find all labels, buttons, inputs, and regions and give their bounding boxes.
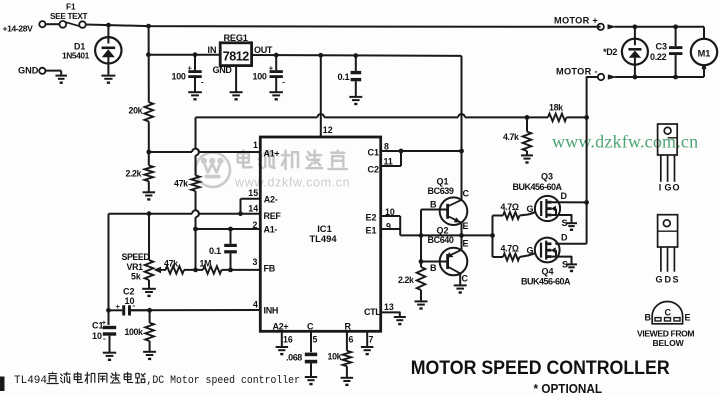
svg-text:4: 4	[253, 300, 258, 310]
svg-text:TL494: TL494	[309, 233, 337, 244]
junction 18k feedback	[584, 115, 589, 120]
resistor 2.2k base	[398, 262, 425, 302]
resistor 20k	[129, 102, 154, 121]
svg-text:O: O	[673, 183, 680, 193]
wire feedback line	[196, 114, 549, 117]
regulator REG1 7812	[208, 33, 273, 75]
Q4 source ground	[562, 260, 568, 270]
svg-text:E: E	[685, 313, 691, 323]
terminal MOTOR -	[556, 66, 617, 80]
ground at GND terminal	[56, 76, 68, 84]
junction at pin12 branch	[318, 53, 323, 58]
pin 7 ground	[367, 331, 373, 346]
svg-text:47k: 47k	[174, 179, 188, 189]
svg-text:BUK456-60A: BUK456-60A	[521, 277, 571, 287]
ground under 2.2k base	[415, 301, 428, 309]
capacitor C1 10	[92, 318, 116, 352]
wire REG1 GND pin	[235, 66, 237, 92]
wire from +V down to 12V rail and 20k	[148, 26, 150, 102]
svg-text:M1: M1	[698, 48, 711, 58]
resistor 18k	[548, 103, 567, 122]
svg-text:0.1: 0.1	[209, 246, 221, 256]
svg-text:*D2: *D2	[603, 47, 617, 57]
junction Q2 base	[419, 259, 424, 264]
pin 6 R timing res	[345, 322, 354, 351]
junction REF to bracket	[238, 211, 243, 216]
junction at 20k branch	[146, 24, 151, 29]
svg-text:3: 3	[253, 257, 258, 267]
svg-text:BC639: BC639	[428, 186, 454, 196]
svg-text:0.1: 0.1	[338, 72, 350, 82]
svg-text:1: 1	[253, 140, 258, 150]
ground under REG1	[230, 92, 243, 100]
wire VR1 drop	[148, 214, 150, 260]
junction splitter	[490, 233, 495, 238]
svg-text:D: D	[561, 233, 568, 243]
wire REF to left rail	[108, 214, 110, 311]
junction 0.1 cap bottom	[228, 268, 233, 273]
svg-text:12: 12	[323, 125, 333, 135]
svg-text:MOTOR -: MOTOR -	[556, 66, 598, 76]
wire MOTOR- to motor network	[615, 76, 704, 78]
ground under C1	[103, 353, 116, 361]
wire E1E2 to transistor bases	[400, 234, 461, 236]
wire to Q4 gate	[520, 246, 537, 258]
package outline 7812 TO-220	[658, 124, 680, 193]
svg-text:C: C	[462, 274, 469, 284]
svg-text:A2+: A2+	[273, 322, 289, 332]
junction base line	[419, 233, 424, 238]
svg-text:SPEED: SPEED	[122, 252, 150, 262]
svg-text:E: E	[463, 221, 469, 231]
ground under VR1	[142, 289, 156, 297]
resistor 47k vertical	[174, 176, 200, 192]
capacitor 100 output electrolytic	[253, 55, 286, 92]
svg-text:7812: 7812	[223, 50, 250, 64]
svg-text:Q2: Q2	[437, 226, 449, 236]
junction collector / C1C2	[459, 149, 464, 154]
wire emitter node to splitter	[462, 234, 493, 236]
pin 11 C2 stub	[368, 151, 402, 175]
junction D2 bottom	[633, 75, 638, 80]
capacitor C2 10	[109, 287, 150, 316]
svg-text:100k: 100k	[125, 327, 143, 337]
wire 2.2k to ground	[148, 181, 150, 192]
junction 100k	[147, 308, 152, 313]
svg-text:BC640: BC640	[428, 235, 454, 245]
svg-text:E1: E1	[366, 226, 377, 236]
svg-text:,DC Motor speed controller: ,DC Motor speed controller	[147, 375, 301, 387]
terminal +14-28V	[3, 21, 46, 33]
pin 13 CTL ground	[364, 302, 400, 317]
svg-text:B: B	[430, 263, 437, 273]
pin label 12	[323, 125, 333, 135]
junction at regulator IN rail	[146, 52, 151, 57]
svg-text:TL494: TL494	[14, 375, 47, 387]
svg-text:GND: GND	[18, 66, 39, 76]
svg-text:.068: .068	[286, 353, 302, 363]
svg-text:100: 100	[172, 72, 186, 82]
junction REF to VR1	[147, 211, 152, 216]
ground under 100k	[143, 352, 156, 360]
svg-text:7: 7	[369, 335, 374, 345]
svg-text:CTL: CTL	[364, 307, 381, 317]
capacitor 0.1 rail bypass	[338, 56, 362, 97]
pin 16 A2+ ground	[273, 322, 293, 347]
svg-text:-: -	[133, 301, 136, 310]
svg-text:A1+: A1+	[264, 149, 280, 159]
mosfet Q4 BUK456-60A	[521, 238, 572, 287]
svg-text:2.2k: 2.2k	[126, 169, 142, 179]
pin 3 FB wire	[184, 257, 276, 274]
Q3 drain wire	[556, 191, 587, 202]
svg-text:BELOW: BELOW	[653, 338, 685, 348]
transistor Q2 BC640	[421, 226, 469, 286]
svg-text:13: 13	[384, 302, 394, 312]
wire to Q3 gate	[520, 204, 537, 216]
resistor 10k	[328, 351, 352, 378]
ground under input 100 cap	[188, 92, 202, 100]
subtitle OPTIONAL	[534, 382, 603, 395]
package outline MOSFET TO-220	[656, 215, 679, 285]
package TO-92 viewed from below	[637, 302, 694, 349]
svg-text:100: 100	[253, 72, 267, 82]
op-amp IC1 TL494 body	[260, 137, 380, 331]
pin 4 INH wire	[132, 300, 279, 316]
svg-text:C2: C2	[368, 165, 380, 175]
svg-text:REF: REF	[264, 211, 282, 221]
ground under 2.2k	[143, 192, 156, 200]
diode D1 1N5401	[62, 25, 122, 74]
svg-text:R: R	[345, 322, 352, 332]
junction C3 bottom	[673, 75, 678, 80]
junction at cap 100 output	[274, 53, 279, 58]
junction 47k branch at FB	[193, 268, 198, 273]
ground under D1	[101, 76, 115, 84]
caption TL494 DC motor speed controller	[14, 372, 300, 387]
fuse F1	[50, 3, 87, 28]
wire left rail to C1	[108, 310, 110, 325]
svg-text:15: 15	[248, 188, 258, 198]
resistor 2.2k divider	[126, 165, 154, 181]
svg-text:E: E	[463, 239, 469, 249]
svg-text:IN: IN	[208, 45, 217, 55]
resistor 1M	[200, 259, 222, 274]
pin 5 C timing cap	[307, 322, 318, 353]
wire 12V rail OUT side	[252, 54, 462, 57]
svg-text:FB: FB	[264, 264, 276, 274]
pin 2 A1- wire	[196, 220, 278, 235]
junction at cap 100 input	[193, 52, 198, 57]
svg-text:10: 10	[92, 331, 102, 341]
svg-text:D: D	[561, 191, 568, 201]
pin 10 E2 stub	[366, 207, 401, 223]
svg-text:Q4: Q4	[542, 267, 554, 277]
svg-text:I: I	[659, 183, 662, 193]
wire 20k to node A	[148, 122, 150, 153]
junction 0.1 cap top	[228, 227, 233, 232]
wire C1C2 to Q1 collector rail	[399, 149, 462, 154]
svg-text:C3: C3	[656, 42, 668, 52]
junction INH corner	[106, 308, 111, 313]
wire 47k branch top	[196, 117, 199, 175]
svg-text:-: -	[282, 78, 285, 87]
pin 1 A1+ wire	[149, 140, 280, 158]
svg-text:G: G	[665, 183, 672, 193]
svg-text:INH: INH	[264, 306, 279, 316]
junction D2 top	[633, 24, 638, 29]
svg-text:B: B	[645, 313, 652, 323]
svg-text:16: 16	[283, 335, 293, 345]
svg-text:F1: F1	[66, 3, 76, 12]
capacitor C3 0.22	[650, 27, 682, 77]
junction 4.7k branch	[525, 115, 530, 120]
title MOTOR SPEED CONTROLLER	[411, 358, 670, 379]
node A junction (pin1 divider)	[146, 150, 151, 155]
watermark logo and site	[196, 151, 351, 190]
resistor 4.7 ohm Q4 gate	[501, 244, 520, 261]
wire 18k to MOTOR- drop	[567, 116, 587, 118]
pin 9 E1 stub	[366, 216, 401, 236]
svg-text:-: -	[201, 78, 204, 87]
capacitor 100 input electrolytic	[172, 55, 205, 92]
svg-text:* OPTIONAL: * OPTIONAL	[534, 382, 603, 395]
junction at cap 0.1 branch	[353, 53, 358, 58]
resistor 100k	[125, 310, 154, 351]
wire node A to 2.2k	[148, 152, 150, 165]
svg-text:MOTOR +: MOTOR +	[554, 15, 598, 25]
junction C3 top	[673, 24, 678, 29]
edge mark	[0, 377, 5, 392]
svg-text:D: D	[665, 274, 672, 284]
junction Q3 drain	[584, 200, 589, 205]
wire 12V rail to Q1 collector	[461, 56, 463, 200]
wire MOTOR- feedback drop	[587, 77, 598, 244]
svg-text:S: S	[673, 274, 679, 284]
svg-text:MOTOR SPEED CONTROLLER: MOTOR SPEED CONTROLLER	[411, 358, 670, 379]
pin 15 A2- stub	[241, 188, 278, 214]
svg-text:4.7k: 4.7k	[503, 132, 519, 142]
svg-text:+: +	[102, 318, 107, 327]
potentiometer VR1 5k SPEED	[122, 252, 167, 288]
svg-text:14: 14	[248, 204, 258, 214]
ground under 0.1 cap	[349, 97, 362, 105]
wire 12V rail IN side	[148, 54, 219, 56]
diode D2 optional	[603, 27, 648, 77]
ground under 4.7k	[521, 155, 533, 163]
wire 47k bottom crossing REF	[196, 191, 199, 270]
svg-text:C1: C1	[368, 148, 380, 158]
motor M1	[691, 27, 717, 77]
svg-text:OUT: OUT	[254, 45, 273, 55]
svg-text:2.2k: 2.2k	[398, 275, 414, 285]
svg-text:G: G	[656, 274, 663, 284]
mosfet Q3 BUK456-60A	[513, 172, 572, 223]
svg-text:BUK456-60A: BUK456-60A	[513, 182, 563, 192]
svg-text:20k: 20k	[129, 106, 143, 116]
terminal MOTOR +	[554, 15, 617, 30]
terminal GND	[18, 66, 61, 76]
svg-text:C: C	[665, 308, 672, 318]
resistor 47k wiper	[164, 259, 184, 274]
ground under Q2 collector	[454, 285, 467, 293]
resistor 4.7k to ground	[503, 117, 531, 155]
capacitor .068	[286, 353, 317, 377]
svg-text:E2: E2	[366, 213, 377, 223]
ground under output 100 cap	[269, 92, 283, 100]
transistor Q1 BC639	[428, 177, 470, 236]
pin 14 REF wire	[109, 204, 282, 221]
wire Q1 base drop	[421, 210, 440, 262]
wire splitter	[493, 216, 504, 258]
svg-text:18k: 18k	[549, 103, 563, 113]
svg-text:10k: 10k	[328, 352, 342, 362]
Q4 drain wire	[555, 233, 586, 244]
wire +V top rail	[86, 25, 601, 27]
svg-text:B: B	[430, 200, 437, 210]
Q3 source ground	[562, 218, 568, 228]
svg-text:Q3: Q3	[541, 172, 553, 182]
svg-text:Q1: Q1	[437, 177, 449, 187]
svg-text:C2: C2	[123, 287, 135, 297]
wire pin 12 of IC	[320, 55, 322, 137]
svg-text:VIEWED FROM: VIEWED FROM	[637, 328, 694, 338]
svg-text:SEE TEXT: SEE TEXT	[50, 12, 87, 21]
svg-text:6: 6	[349, 335, 354, 345]
svg-text:1N5401: 1N5401	[62, 51, 90, 61]
svg-text:0.22: 0.22	[650, 52, 667, 62]
svg-text:A2-: A2-	[264, 195, 278, 205]
capacitor 0.1 A1- to FB	[209, 229, 237, 270]
svg-text:A1-: A1-	[264, 225, 278, 235]
resistor 4.7 ohm Q3 gate	[501, 202, 520, 219]
pin 8 C1 stub	[368, 142, 402, 158]
wire input to fuse	[46, 23, 60, 25]
junction at D1 top	[106, 23, 111, 28]
svg-text:C: C	[463, 189, 470, 199]
svg-text:VR1: VR1	[127, 262, 144, 272]
svg-text:+14-28V: +14-28V	[3, 24, 34, 34]
svg-text:5: 5	[313, 335, 318, 345]
svg-text:GND: GND	[213, 65, 233, 75]
wire MOTOR+ to motor network	[615, 26, 705, 28]
svg-text:C: C	[307, 322, 314, 332]
junction emitter node	[459, 233, 464, 238]
svg-text:5k: 5k	[131, 272, 141, 282]
junction 47k branch at pin2	[193, 227, 198, 232]
